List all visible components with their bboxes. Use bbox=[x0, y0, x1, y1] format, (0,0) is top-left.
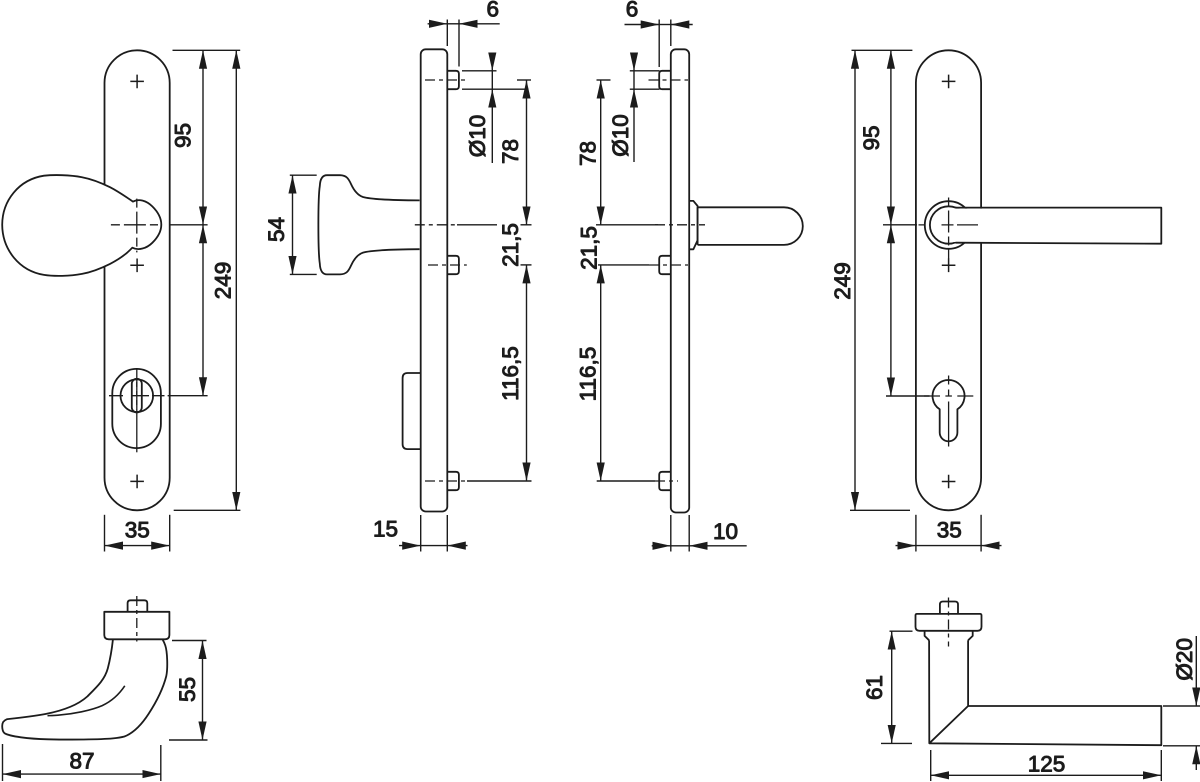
dim 125 ext right F6 bbox=[1160, 750, 1162, 781]
dim 249 line F1 bbox=[235, 50, 237, 510]
dim 87 ext right F5 bbox=[160, 745, 162, 781]
dim d20 lower arrow F6 bbox=[1195, 746, 1197, 770]
knob profile F2 bbox=[318, 175, 419, 274]
extension line 35 right F1 bbox=[169, 515, 171, 552]
lever bar mask F4 bbox=[950, 209, 1160, 242]
dim 55 line F5 bbox=[202, 641, 204, 741]
dim d10 through line F2 bbox=[491, 71, 493, 89]
lever bar F4 bbox=[955, 208, 1161, 244]
dim 55 ext top F5 bbox=[172, 640, 207, 642]
extension line 35 right F4 bbox=[980, 515, 982, 552]
dim 6 ext right F2 bbox=[458, 20, 460, 67]
knob centerline horizontal F1 bbox=[111, 224, 158, 226]
dim d20 ext bottom F6 bbox=[1163, 745, 1200, 747]
lever rose inner circle F4 bbox=[930, 206, 967, 243]
extension line cylinder center F1 bbox=[168, 395, 208, 397]
dim 10 ext left F3 bbox=[670, 515, 672, 552]
dim d10 lower arrow and leader F2 bbox=[491, 89, 493, 163]
dim chain knob-to-cylinder line F1 bbox=[202, 225, 204, 396]
dim d10 upper arrow F3 bbox=[633, 53, 635, 71]
knob spindle F5 bbox=[128, 600, 148, 612]
screw cross below lever F4 bbox=[942, 259, 956, 273]
svg-text:95: 95 bbox=[859, 125, 884, 150]
plate side body F3 bbox=[671, 49, 689, 512]
cylinder centerline vertical F4 bbox=[948, 376, 950, 447]
dim 54 ext top F2 bbox=[290, 174, 317, 176]
cylinder housing bump F2 bbox=[403, 373, 421, 449]
svg-text:15: 15 bbox=[373, 517, 398, 542]
dim 35 line F1 bbox=[105, 545, 170, 547]
lever rose flange F6 bbox=[916, 614, 982, 631]
lever spindle F6 bbox=[940, 602, 958, 614]
tick at 21.5 bottom F2 bbox=[521, 264, 532, 266]
extension line lever center F4 bbox=[883, 224, 917, 226]
screw lug bottom F2 bbox=[447, 472, 459, 490]
dims FIG4 bbox=[850, 50, 1002, 551]
svg-text:61: 61 bbox=[862, 675, 887, 700]
knob neck flange F5 bbox=[104, 612, 169, 640]
dim d10 through line F3 bbox=[633, 71, 635, 89]
knob body F5 bbox=[2, 640, 167, 740]
dim 15 arrows F2 bbox=[399, 545, 421, 547]
ext cylinder center F3 bbox=[597, 480, 655, 482]
dim 10 arrows F3 bbox=[652, 545, 671, 547]
screw lug top F2 bbox=[447, 71, 459, 89]
dim 125 ext left F6 bbox=[930, 750, 932, 781]
svg-text:249: 249 bbox=[830, 262, 855, 300]
dims FIG6 bbox=[881, 631, 1200, 781]
knob front view F1 bbox=[2, 175, 161, 276]
screw cross bottom F4 bbox=[942, 475, 956, 489]
svg-text:54: 54 bbox=[264, 217, 289, 242]
tick at 78 top F2 bbox=[517, 79, 531, 81]
extension line knob center F1 bbox=[171, 224, 208, 226]
dim 6 arrows F2 bbox=[428, 23, 448, 25]
cylinder centerline vertical F1 bbox=[136, 368, 138, 452]
svg-text:87: 87 bbox=[69, 749, 94, 774]
knob centerline F2 bbox=[415, 224, 457, 226]
lug middle centerline F2 bbox=[428, 264, 467, 266]
extension line bottom F4 bbox=[850, 509, 910, 511]
lever centerline vertical F4 bbox=[948, 198, 950, 260]
dims FIG2 bbox=[290, 20, 532, 552]
ext cylinder center F2 bbox=[467, 480, 532, 482]
dim 6 arrows F3 bbox=[625, 24, 660, 26]
dim 87 ext left F5 bbox=[2, 744, 4, 781]
dim 6 ext left F3 bbox=[658, 20, 660, 68]
cylinder centerline horizontal F1 bbox=[109, 395, 165, 397]
svg-text:Ø20: Ø20 bbox=[1172, 638, 1197, 681]
dim chain lever-to-cylinder line F4 bbox=[890, 225, 892, 396]
svg-text:Ø10: Ø10 bbox=[608, 114, 633, 157]
dim d20 ext top F6 bbox=[1163, 705, 1200, 707]
ext 21.5 bottom F3 bbox=[598, 264, 649, 266]
lever spindle centerline F6 bbox=[948, 598, 950, 647]
dim 61 ext top F6 bbox=[890, 630, 913, 632]
dim 54 ext bottom F2 bbox=[290, 273, 317, 275]
tick at knob center F2 bbox=[521, 224, 532, 226]
cylinder circle F1 bbox=[121, 379, 154, 412]
knob centerline vertical F1 bbox=[136, 199, 138, 253]
dim 95 line F4 bbox=[890, 50, 892, 225]
dim 95 line F1 bbox=[202, 50, 204, 225]
euro cylinder keyhole F4 bbox=[933, 380, 965, 441]
screw lug bottom F3 bbox=[659, 472, 671, 490]
screw lug middle F2 bbox=[447, 256, 459, 274]
dim 249 line F4 bbox=[854, 50, 856, 510]
dim d10 upper arrow F2 bbox=[491, 53, 493, 71]
stub centerline F3 bbox=[655, 224, 705, 226]
knob spindle centerline F5 bbox=[136, 596, 138, 642]
lug top centerline F2 bbox=[425, 79, 467, 81]
dims FIG5 bbox=[3, 641, 208, 782]
screw cross top F4 bbox=[942, 75, 956, 89]
dim 15 ext right F2 bbox=[446, 515, 448, 552]
svg-text:35: 35 bbox=[937, 518, 962, 543]
dims FIG3 bbox=[596, 20, 747, 552]
screw lug top F3 bbox=[659, 71, 671, 89]
keyhole dashed core F1 bbox=[136, 382, 138, 410]
lug top centerline F3 bbox=[649, 79, 689, 81]
extension line top F4 bbox=[852, 49, 913, 51]
knob body crease F5 bbox=[48, 686, 125, 716]
dim d20 upper arrow and leader F6 bbox=[1195, 636, 1197, 706]
svg-text:249: 249 bbox=[210, 262, 235, 300]
svg-text:78: 78 bbox=[498, 139, 523, 164]
dim 6 ext right F3 bbox=[670, 20, 672, 47]
lug bottom edge ext F3 bbox=[630, 88, 660, 90]
lever centerline horizontal F4 bbox=[919, 224, 979, 226]
dim 35 arrows F4 bbox=[896, 545, 916, 547]
screw cross below knob F1 bbox=[130, 259, 144, 273]
screw cross bottom F1 bbox=[130, 475, 144, 489]
backplate F1 bbox=[105, 50, 170, 510]
extension line 35 left F1 bbox=[104, 515, 106, 552]
lug top edge ext F3 bbox=[630, 70, 660, 72]
lug bottom centerline F2 bbox=[425, 480, 467, 482]
svg-text:Ø10: Ø10 bbox=[465, 115, 490, 158]
dim chain line 78/21.5/116.5 F2 bbox=[526, 80, 528, 225]
dim 6 ext left F2 bbox=[446, 20, 448, 47]
svg-text:116,5: 116,5 bbox=[576, 347, 601, 402]
spindle stub F3 bbox=[698, 207, 803, 245]
collar face line F3 bbox=[697, 207, 699, 245]
svg-text:10: 10 bbox=[713, 519, 738, 544]
screw cross top F1 bbox=[130, 75, 144, 89]
dim 87 line F5 bbox=[3, 773, 161, 775]
screw lug middle F3 bbox=[659, 256, 671, 274]
lever neck and grip F6 bbox=[929, 640, 1161, 745]
dim 61 ext bottom F6 bbox=[881, 742, 912, 744]
extension line cylinder center F4 bbox=[886, 395, 930, 397]
svg-text:95: 95 bbox=[171, 123, 196, 148]
svg-text:78: 78 bbox=[576, 141, 601, 166]
lug middle centerline F3 bbox=[649, 264, 688, 266]
svg-text:125: 125 bbox=[1028, 752, 1066, 777]
dims FIG1 bbox=[105, 50, 241, 551]
dim 15 ext left F2 bbox=[420, 515, 422, 552]
lug bottom centerline F3 bbox=[655, 480, 678, 482]
lever rose outer circle F4 bbox=[925, 201, 973, 249]
ext stub center F3 bbox=[596, 224, 658, 226]
spindle collar F3 bbox=[689, 201, 697, 249]
svg-text:35: 35 bbox=[125, 518, 150, 543]
dim 61 line F6 bbox=[891, 631, 893, 743]
svg-text:6: 6 bbox=[487, 0, 500, 22]
svg-text:55: 55 bbox=[175, 677, 200, 702]
lug top edge ext F2 bbox=[462, 70, 497, 72]
cylinder centerline horizontal F4 bbox=[924, 395, 973, 397]
extension line bottom F1 bbox=[174, 509, 241, 511]
extension line 35 left F4 bbox=[915, 515, 917, 552]
dim 10 ext right F3 bbox=[688, 515, 690, 552]
svg-text:21,5: 21,5 bbox=[577, 226, 602, 270]
cylinder oval cover F1 bbox=[112, 369, 161, 448]
lug bottom edge ext F2 bbox=[462, 88, 529, 90]
lever rose step F6 bbox=[925, 631, 973, 641]
dim d10 lower arrow and leader F3 bbox=[633, 89, 635, 162]
tick at 78 top F3 bbox=[597, 79, 611, 81]
dim 55 ext bottom F5 bbox=[169, 739, 208, 741]
svg-text:21,5: 21,5 bbox=[498, 223, 523, 267]
dim 125 line F6 bbox=[931, 774, 1162, 776]
dim chain line 78/21.5/116.5 F3 bbox=[600, 80, 602, 225]
svg-text:116,5: 116,5 bbox=[498, 346, 523, 401]
keyhole slot F1 bbox=[132, 379, 142, 413]
dim 54 line F2 bbox=[292, 175, 294, 274]
backplate F4 bbox=[916, 50, 981, 510]
extension line top F1 bbox=[173, 49, 241, 51]
svg-text:6: 6 bbox=[626, 0, 639, 22]
plate side body F2 bbox=[421, 49, 448, 511]
